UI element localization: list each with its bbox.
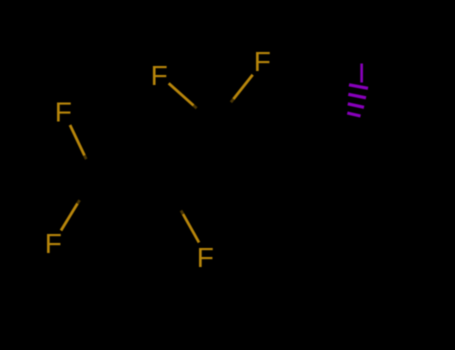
bond C1-F (upper F of CHF2 end), F-side half <box>70 125 85 156</box>
dark fade tip of C2-F bond (top-right) at carbon end <box>231 99 234 102</box>
svg-text:F: F <box>197 242 214 273</box>
dark fade tip of C3-F bond (middle) at carbon end <box>181 211 183 215</box>
svg-text:F: F <box>254 46 271 77</box>
hashed wedge C-I, hash 2 <box>348 94 366 98</box>
dark fade tip of C1-F bond (lower-left) at carbon end <box>78 200 80 203</box>
bond C2-F (top-right F of CF2 group), F-side half <box>233 75 252 99</box>
dark fade tip of C1-F bond (upper-left) at carbon end <box>85 156 87 160</box>
dark fade tip of C2-F bond (top-left) at carbon end <box>194 106 197 109</box>
bond C3-F (CHF middle carbon), F-side half <box>183 214 199 243</box>
svg-text:F: F <box>151 60 168 91</box>
hashed wedge C-I, hash 4 (narrowest, toward stereocentre) <box>347 113 360 116</box>
hashed wedge C-I, hash 1 (widest, nearest I) <box>349 85 368 89</box>
svg-text:F: F <box>55 96 72 127</box>
bond C2-F (top-left F of CF2 group), F-side half <box>169 83 194 105</box>
bond C1-F (lower F of CHF2 end), F-side half <box>61 204 78 231</box>
hashed wedge C-I, hash 3 <box>348 104 364 108</box>
svg-text:I: I <box>358 57 366 88</box>
svg-text:F: F <box>45 228 62 259</box>
